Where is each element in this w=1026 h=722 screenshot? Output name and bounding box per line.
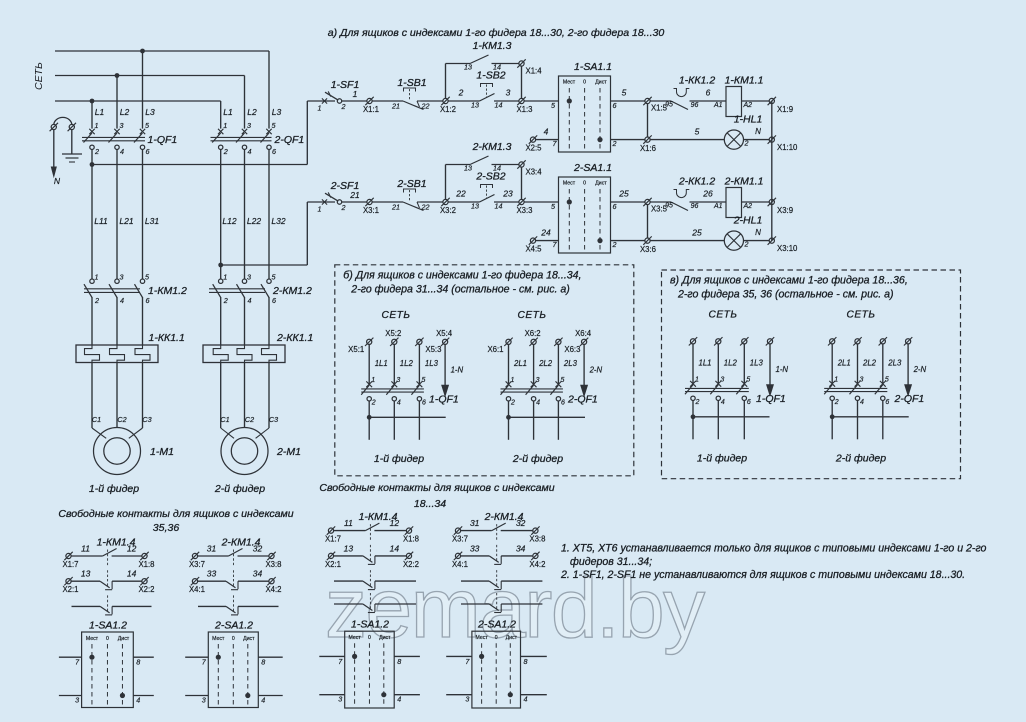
svg-text:8: 8 xyxy=(136,658,140,667)
breaker pole 2 xyxy=(531,381,537,387)
svg-text:3: 3 xyxy=(202,696,206,705)
wire drop 1L2 xyxy=(717,344,719,384)
svg-text:2-N: 2-N xyxy=(913,365,927,374)
wire X5-X6 vertical xyxy=(647,205,649,238)
circuit breaker 1-QF1 bar xyxy=(685,387,749,389)
arrow 2-N xyxy=(905,385,912,396)
control tap rail circuit 2 xyxy=(221,264,308,266)
wire drop 2L3 xyxy=(557,344,559,384)
terminal input 1 group 2 xyxy=(504,338,512,346)
svg-text:2: 2 xyxy=(612,240,617,249)
svg-text:X2:2: X2:2 xyxy=(403,560,419,569)
wire xyxy=(742,201,770,203)
svg-text:A2: A2 xyxy=(743,102,753,109)
svg-text:3: 3 xyxy=(75,696,79,705)
svg-text:СЕТЬ: СЕТЬ xyxy=(517,310,546,321)
wires below breaker xyxy=(831,401,833,440)
svg-text:C1: C1 xyxy=(220,415,229,424)
junction bus2/feeder1-L2 xyxy=(115,73,120,78)
svg-text:X3:4: X3:4 xyxy=(526,168,543,177)
svg-text:3: 3 xyxy=(247,273,251,282)
1-КМ1.4 contact row 2 xyxy=(64,577,72,585)
svg-text:14: 14 xyxy=(127,569,137,579)
breaker pole 3 xyxy=(741,381,747,387)
wire row start xyxy=(307,100,335,102)
svg-text:0: 0 xyxy=(495,635,498,641)
svg-text:3: 3 xyxy=(720,376,724,383)
wire selector lamp out xyxy=(611,139,645,141)
wire selector out xyxy=(611,100,645,102)
svg-text:21: 21 xyxy=(391,203,400,212)
svg-text:4: 4 xyxy=(397,399,401,406)
svg-text:0: 0 xyxy=(583,181,586,187)
terminal input 4 group 2 xyxy=(904,337,912,345)
svg-text:2-КМ1.1: 2-КМ1.1 xyxy=(724,176,764,188)
2-КМ1.4 contact row 2 xyxy=(191,577,199,585)
svg-text:X3:3: X3:3 xyxy=(516,206,532,215)
svg-text:96: 96 xyxy=(691,102,699,109)
svg-text:1-КМ1.1: 1-КМ1.1 xyxy=(725,75,764,87)
svg-text:2-КК1.1: 2-КК1.1 xyxy=(276,332,313,344)
breaker pole 1 xyxy=(366,381,372,387)
svg-text:4: 4 xyxy=(248,296,252,305)
wire drop 2L1 xyxy=(831,344,833,384)
svg-text:13: 13 xyxy=(471,202,479,211)
svg-text:A2: A2 xyxy=(743,203,753,210)
svg-text:Мест: Мест xyxy=(563,181,576,187)
svg-text:C1: C1 xyxy=(92,415,101,424)
wire drop 2-N xyxy=(907,344,909,386)
svg-text:1. ХТ5, ХТ6 устанавливается то: 1. ХТ5, ХТ6 устанавливается только для я… xyxy=(561,543,987,555)
svg-text:2-й фидер: 2-й фидер xyxy=(214,483,265,495)
variant box border xyxy=(335,265,634,476)
bus L1 (top) xyxy=(55,50,269,52)
svg-text:A1: A1 xyxy=(713,203,723,210)
wire feeder2 L2 drop xyxy=(244,76,246,129)
svg-text:5: 5 xyxy=(560,377,564,384)
svg-text:2-QF1: 2-QF1 xyxy=(274,134,305,146)
terminal X2:5 xyxy=(529,135,537,143)
svg-text:X3:9: X3:9 xyxy=(777,206,793,215)
svg-text:4: 4 xyxy=(120,296,124,305)
svg-text:2L3: 2L3 xyxy=(563,359,578,368)
contactor 1-КМ1.2 pole 3 xyxy=(140,279,144,283)
svg-text:2-SB2: 2-SB2 xyxy=(475,171,505,183)
wire to selector xyxy=(524,100,558,102)
bus tap with junction xyxy=(832,416,909,418)
svg-text:1-й фидер: 1-й фидер xyxy=(697,452,747,464)
breaker pole 3 xyxy=(556,381,562,387)
svg-text:1-QF1: 1-QF1 xyxy=(429,393,459,405)
svg-text:X4:2: X4:2 xyxy=(265,585,281,594)
terminal X1:6 xyxy=(643,135,651,143)
svg-text:L22: L22 xyxy=(247,216,261,226)
wire to selector xyxy=(524,201,558,203)
terminal X3:2 xyxy=(441,198,449,206)
contactor 2-КМ1.2 linkage bar xyxy=(209,288,265,290)
svg-text:L3: L3 xyxy=(272,107,282,117)
terminal X3:10 xyxy=(768,236,776,244)
svg-text:2: 2 xyxy=(834,399,839,406)
1-КМ1.4 contact row 1 xyxy=(327,526,335,534)
control tap rail circuit 1 xyxy=(92,164,307,166)
svg-text:X1:7: X1:7 xyxy=(325,535,341,544)
terminal X1:4 xyxy=(517,59,525,67)
svg-text:2-QF1: 2-QF1 xyxy=(567,393,598,405)
terminal input 4 group 1 xyxy=(766,337,774,345)
svg-text:2: 2 xyxy=(458,88,464,98)
svg-text:X6:4: X6:4 xyxy=(575,329,592,338)
svg-text:1-SB1: 1-SB1 xyxy=(397,77,426,89)
svg-text:X5:4: X5:4 xyxy=(436,329,453,338)
terminal X3:1 xyxy=(365,198,373,206)
svg-text:L21: L21 xyxy=(119,216,133,226)
svg-text:3: 3 xyxy=(465,695,469,704)
svg-text:2-КМ1.3: 2-КМ1.3 xyxy=(472,141,512,153)
svg-text:4: 4 xyxy=(248,147,252,156)
wire X5-X6 vertical xyxy=(647,104,649,137)
svg-text:11: 11 xyxy=(81,544,90,554)
switch 1-SF1 xyxy=(325,92,338,100)
circuit breaker 2-QF1 bar xyxy=(824,387,887,389)
breaker 2-QF1 pole 3 contact xyxy=(266,129,271,134)
bus L3 xyxy=(55,100,221,102)
terminal input 3 group 2 xyxy=(879,337,887,345)
wire N lead xyxy=(53,130,55,168)
svg-text:C2: C2 xyxy=(117,415,126,424)
svg-text:95: 95 xyxy=(665,102,673,109)
terminal input 2 group 2 xyxy=(853,337,861,345)
1-КМ1.4 contact row 3 xyxy=(334,580,363,582)
svg-text:2: 2 xyxy=(341,102,346,111)
wire feeder1 outputs below QF1 xyxy=(91,150,93,280)
wire common N vertical xyxy=(771,101,773,241)
svg-text:6: 6 xyxy=(146,296,150,305)
bus L2 xyxy=(55,75,245,77)
svg-text:1-КМ1.3: 1-КМ1.3 xyxy=(473,40,512,52)
1-SA1.2 wires xyxy=(59,656,82,658)
wire xyxy=(690,201,727,203)
svg-text:12: 12 xyxy=(127,544,137,554)
svg-text:31: 31 xyxy=(470,518,480,528)
svg-text:X1:2: X1:2 xyxy=(440,105,456,114)
thermal relay 2-КК1.1 heater 1 xyxy=(213,345,228,363)
arrow 2-N xyxy=(581,385,588,396)
svg-text:13: 13 xyxy=(81,569,91,579)
contactor 2-КМ1.2 pole 1 xyxy=(219,279,223,283)
svg-text:1-SA1.2: 1-SA1.2 xyxy=(351,619,389,631)
contactor 1-КМ1.2 pole 2 xyxy=(115,279,119,283)
svg-text:L11: L11 xyxy=(94,216,108,226)
svg-text:0: 0 xyxy=(106,636,109,642)
svg-text:X1:4: X1:4 xyxy=(526,67,543,76)
svg-text:2-КМ1.2: 2-КМ1.2 xyxy=(272,285,312,297)
wire xyxy=(690,100,727,102)
svg-text:5: 5 xyxy=(622,88,627,98)
terminal cross pin 1 xyxy=(322,98,327,103)
svg-text:L12: L12 xyxy=(222,216,236,226)
svg-text:L2: L2 xyxy=(247,107,257,117)
svg-text:13: 13 xyxy=(471,101,479,110)
svg-text:33: 33 xyxy=(207,569,217,579)
svg-text:СЕТЬ: СЕТЬ xyxy=(33,62,45,90)
svg-text:6: 6 xyxy=(885,399,889,406)
wires below breaker xyxy=(692,401,694,440)
svg-text:22: 22 xyxy=(421,102,430,111)
bus tap with junction xyxy=(369,416,446,418)
svg-text:5: 5 xyxy=(746,376,750,383)
svg-text:Свободные контакты для ящиков: Свободные контакты для ящиков с индексам… xyxy=(319,482,554,494)
svg-text:Дист: Дист xyxy=(243,636,255,642)
svg-text:18...34: 18...34 xyxy=(414,498,446,510)
wire xyxy=(421,201,443,203)
svg-text:6: 6 xyxy=(272,296,276,305)
svg-text:6: 6 xyxy=(747,399,751,406)
svg-text:1: 1 xyxy=(223,273,227,282)
svg-text:8: 8 xyxy=(524,657,528,666)
svg-text:8: 8 xyxy=(261,658,265,667)
terminal X4:5 xyxy=(529,236,537,244)
svg-text:21: 21 xyxy=(349,190,360,200)
svg-text:4: 4 xyxy=(860,399,864,406)
switch 2-SF1 xyxy=(325,193,338,201)
svg-text:1: 1 xyxy=(318,104,322,113)
thermal relay 2-КК1.1 heater 2 xyxy=(237,345,252,363)
svg-text:4: 4 xyxy=(120,147,124,156)
svg-text:C3: C3 xyxy=(142,415,151,424)
svg-text:2L1: 2L1 xyxy=(837,358,851,367)
terminal input 2 group 2 xyxy=(529,338,537,346)
wire drop 1L1 xyxy=(368,344,370,384)
svg-text:1-N: 1-N xyxy=(451,365,464,374)
svg-text:32: 32 xyxy=(516,518,526,528)
svg-text:1-КМ1.2: 1-КМ1.2 xyxy=(148,285,187,297)
svg-text:X1:9: X1:9 xyxy=(777,105,793,114)
svg-text:14: 14 xyxy=(390,543,400,553)
terminal input 3 group 2 xyxy=(554,338,562,346)
breaker pole 3 xyxy=(880,381,886,387)
breaker 2-QF1 pole 2 contact xyxy=(242,129,247,134)
svg-text:N: N xyxy=(54,176,61,186)
svg-text:4: 4 xyxy=(524,695,528,704)
svg-text:X2:1: X2:1 xyxy=(325,560,341,569)
svg-text:X1:1: X1:1 xyxy=(363,105,379,114)
wire feeder1 L1 drop xyxy=(91,101,93,129)
svg-text:1-N: 1-N xyxy=(776,365,789,374)
svg-text:1: 1 xyxy=(371,377,375,384)
svg-text:4: 4 xyxy=(721,399,725,406)
terminal X1:1 xyxy=(365,97,373,105)
svg-text:A1: A1 xyxy=(713,102,723,109)
contactor 1-КМ1.2 linkage bar xyxy=(84,288,140,290)
junction tap2/feeder2 L1 xyxy=(218,263,223,268)
wire feeder2 L1 drop xyxy=(220,101,222,129)
svg-text:Дист: Дист xyxy=(118,636,130,642)
svg-text:4: 4 xyxy=(536,399,540,406)
PEN link terminals and arc xyxy=(50,123,58,131)
svg-text:2-SA1.1: 2-SA1.1 xyxy=(573,162,612,174)
svg-text:1: 1 xyxy=(223,121,227,130)
svg-text:X1:7: X1:7 xyxy=(62,560,78,569)
wire selector out xyxy=(611,201,645,203)
svg-text:1-SB2: 1-SB2 xyxy=(476,70,505,82)
breaker pole 1 xyxy=(690,381,696,387)
svg-text:23: 23 xyxy=(502,189,513,199)
svg-text:6: 6 xyxy=(706,88,711,98)
svg-text:5: 5 xyxy=(695,127,700,137)
wire branch down xyxy=(521,167,523,199)
svg-text:X3:7: X3:7 xyxy=(452,535,468,544)
svg-text:2-SA1.2: 2-SA1.2 xyxy=(477,619,516,631)
svg-text:X6:2: X6:2 xyxy=(525,329,541,338)
svg-text:1-КК1.1: 1-КК1.1 xyxy=(149,332,185,344)
svg-text:96: 96 xyxy=(691,203,699,210)
svg-text:X4:1: X4:1 xyxy=(452,560,468,569)
svg-text:1-QF1: 1-QF1 xyxy=(148,134,178,146)
svg-text:X2:2: X2:2 xyxy=(138,585,154,594)
svg-text:95: 95 xyxy=(665,203,673,210)
svg-text:2: 2 xyxy=(94,147,99,156)
svg-text:Мест: Мест xyxy=(476,635,489,641)
svg-text:X2:5: X2:5 xyxy=(525,144,542,153)
svg-text:13: 13 xyxy=(464,164,472,173)
circuit breaker 1-QF1 linkage bar xyxy=(82,136,145,138)
svg-text:X1:8: X1:8 xyxy=(403,535,419,544)
svg-text:3: 3 xyxy=(120,121,124,130)
svg-text:СЕТЬ: СЕТЬ xyxy=(846,309,875,320)
svg-text:3: 3 xyxy=(120,273,124,282)
svg-text:1-SA1.2: 1-SA1.2 xyxy=(89,620,127,632)
wires below breaker xyxy=(368,401,370,440)
wire drop 2L2 xyxy=(533,344,535,384)
svg-text:12: 12 xyxy=(390,518,400,528)
terminal X1:3 xyxy=(517,97,525,105)
svg-text:Дист: Дист xyxy=(379,635,391,641)
wire row start xyxy=(307,201,335,203)
breaker pole 2 xyxy=(855,381,861,387)
wire feeder2 L3 drop xyxy=(268,51,270,129)
svg-text:34: 34 xyxy=(253,569,263,579)
svg-text:X4:5: X4:5 xyxy=(525,245,542,254)
svg-text:СЕТЬ: СЕТЬ xyxy=(381,310,410,321)
svg-text:L3: L3 xyxy=(145,107,155,117)
contactor 2-КМ1.2 pole 2 xyxy=(242,279,246,283)
svg-text:X2:1: X2:1 xyxy=(62,585,78,594)
svg-text:X4:2: X4:2 xyxy=(529,560,545,569)
wire feed vertical circuit 1 xyxy=(306,101,308,165)
svg-text:б) Для ящиков с индексами 1-го: б) Для ящиков с индексами 1-го фидера 18… xyxy=(343,269,581,281)
wire xyxy=(372,100,403,102)
thermal relay 1-КК1.1 heater 2 xyxy=(110,345,125,363)
svg-text:0: 0 xyxy=(368,635,371,641)
svg-text:5: 5 xyxy=(885,376,889,383)
svg-text:22: 22 xyxy=(421,203,430,212)
svg-text:2-SB1: 2-SB1 xyxy=(396,178,426,190)
svg-text:21: 21 xyxy=(391,102,400,111)
svg-text:3: 3 xyxy=(506,88,511,98)
wire drop 2-N xyxy=(583,344,585,386)
svg-text:11: 11 xyxy=(344,518,353,528)
svg-text:31: 31 xyxy=(207,544,217,554)
svg-text:1L2: 1L2 xyxy=(400,359,414,368)
circuit breaker 2-QF1 linkage bar xyxy=(211,136,272,138)
svg-text:2-М1: 2-М1 xyxy=(276,446,301,458)
svg-text:X3:1: X3:1 xyxy=(363,206,379,215)
svg-text:1-HL1: 1-HL1 xyxy=(734,114,763,126)
svg-text:2-N: 2-N xyxy=(589,365,603,374)
breaker pole 3 xyxy=(417,381,423,387)
2-КМ1.4 contact row 3 xyxy=(461,580,489,582)
wires KM1.2 to KK1.1 feeder1 xyxy=(91,297,93,345)
terminal input 1 group 2 xyxy=(828,337,836,345)
svg-text:Дист: Дист xyxy=(595,80,607,86)
svg-text:C3: C3 xyxy=(269,415,278,424)
svg-text:6: 6 xyxy=(613,202,617,211)
svg-text:25: 25 xyxy=(691,228,702,238)
svg-text:2-го фидера 31...34 (остальное: 2-го фидера 31...34 (остальное - см. рис… xyxy=(350,283,570,295)
svg-text:X1:3: X1:3 xyxy=(516,105,532,114)
terminal input 4 group 1 xyxy=(441,338,449,346)
svg-text:6: 6 xyxy=(613,101,617,110)
breaker pole 2 xyxy=(715,381,721,387)
terminal input 2 group 1 xyxy=(390,338,398,346)
svg-text:6: 6 xyxy=(146,147,150,156)
svg-text:2L1: 2L1 xyxy=(513,359,527,368)
svg-text:3: 3 xyxy=(536,377,540,384)
terminal X1:2 xyxy=(441,97,449,105)
svg-text:1: 1 xyxy=(511,377,515,384)
wire branch up to 2-KM1.3 xyxy=(445,165,447,200)
svg-text:25: 25 xyxy=(618,189,629,199)
svg-text:13: 13 xyxy=(464,63,472,72)
terminal X1:9 xyxy=(768,97,776,105)
2-КМ1.4 contact row 1 xyxy=(454,526,462,534)
svg-text:Мест: Мест xyxy=(212,636,225,642)
lamp wire xyxy=(650,240,724,242)
1-SA1.2 wires xyxy=(319,655,344,657)
svg-text:Мест: Мест xyxy=(563,80,576,86)
wire xyxy=(742,100,770,102)
terminal input 3 group 1 xyxy=(415,338,423,346)
wire drop 2L2 xyxy=(857,344,859,384)
svg-text:2: 2 xyxy=(510,399,515,406)
wire 21 xyxy=(342,201,367,203)
svg-text:X3:2: X3:2 xyxy=(440,206,456,215)
wires KM2.2 to KK2.1 feeder2 xyxy=(220,297,222,345)
svg-text:1L2: 1L2 xyxy=(724,358,738,367)
wires KK2.1 to motor 2 xyxy=(220,363,222,429)
breaker 1-QF1 pole 3 contact xyxy=(140,129,145,134)
svg-text:6: 6 xyxy=(422,399,426,406)
svg-text:22: 22 xyxy=(455,189,466,199)
2-КМ1.4 contact row 2 xyxy=(454,552,462,560)
svg-text:L1: L1 xyxy=(223,107,233,117)
bus tap with junction xyxy=(509,416,586,418)
wire xyxy=(421,100,443,102)
wire 1 xyxy=(342,100,367,102)
svg-text:X3:8: X3:8 xyxy=(529,535,545,544)
svg-text:1-QF1: 1-QF1 xyxy=(756,393,786,405)
svg-text:Мест: Мест xyxy=(348,635,361,641)
breaker pole 1 xyxy=(829,381,835,387)
bus tap with junction xyxy=(693,416,770,418)
wire xyxy=(372,201,403,203)
svg-text:26: 26 xyxy=(702,189,713,199)
motor 1-M1 xyxy=(94,428,141,475)
svg-text:1-й фидер: 1-й фидер xyxy=(374,453,424,465)
lamp wire xyxy=(650,139,724,141)
svg-text:6: 6 xyxy=(561,399,565,406)
